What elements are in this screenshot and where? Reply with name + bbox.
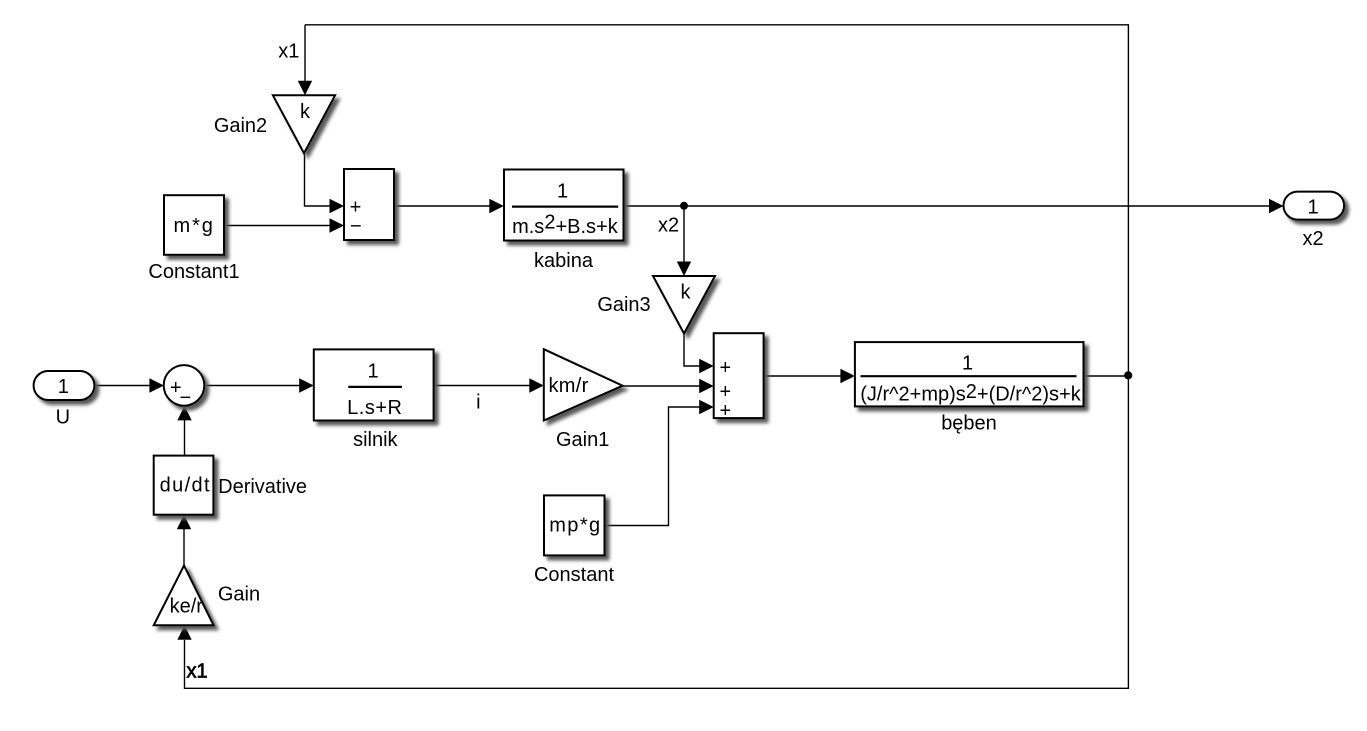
- svg-text:x1: x1: [278, 41, 299, 63]
- svg-text:i: i: [476, 392, 480, 414]
- svg-text:1: 1: [557, 181, 568, 203]
- svg-text:m.s2+B.s+k: m.s2+B.s+k: [512, 212, 619, 239]
- svg-text:Constant1: Constant1: [148, 261, 239, 283]
- svg-text:mp*g: mp*g: [549, 515, 601, 537]
- svg-text:1: 1: [58, 376, 69, 398]
- svg-text:kabina: kabina: [534, 250, 594, 272]
- svg-text:Derivative: Derivative: [218, 476, 307, 498]
- svg-text:1: 1: [1307, 197, 1318, 219]
- svg-text:x2: x2: [1302, 228, 1323, 250]
- svg-text:Gain1: Gain1: [556, 429, 609, 451]
- svg-text:−: −: [350, 216, 362, 238]
- svg-text:bęben: bęben: [941, 413, 997, 435]
- svg-text:du/dt: du/dt: [160, 475, 211, 497]
- svg-text:Gain2: Gain2: [214, 115, 267, 137]
- svg-text:−: −: [179, 387, 191, 409]
- svg-text:+: +: [719, 357, 731, 379]
- svg-text:k: k: [300, 101, 311, 123]
- svg-text:km/r: km/r: [549, 375, 589, 397]
- svg-text:1: 1: [367, 361, 378, 383]
- svg-text:Gain: Gain: [218, 584, 260, 606]
- svg-text:m*g: m*g: [174, 215, 215, 237]
- svg-text:x2: x2: [658, 215, 679, 237]
- svg-text:x1: x1: [186, 661, 207, 683]
- svg-text:+: +: [719, 400, 731, 422]
- svg-text:Gain3: Gain3: [597, 294, 650, 316]
- svg-text:U: U: [56, 407, 70, 429]
- svg-text:L.s+R: L.s+R: [347, 397, 402, 419]
- svg-text:k: k: [681, 282, 692, 304]
- svg-text:(J/r^2+mp)s2+(D/r^2)s+k: (J/r^2+mp)s2+(D/r^2)s+k: [860, 381, 1081, 406]
- svg-text:Constant: Constant: [534, 564, 614, 586]
- svg-text:silnik: silnik: [353, 429, 398, 451]
- svg-text:1: 1: [962, 352, 973, 374]
- svg-text:ke/r: ke/r: [170, 596, 204, 618]
